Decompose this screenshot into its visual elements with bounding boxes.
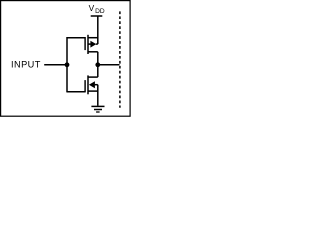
arrow of Q1 (points right) [90, 41, 96, 48]
VDD rail bar [91, 15, 103, 17]
gate wire [67, 91, 85, 93]
source stub [88, 90, 98, 92]
drain stub [88, 51, 98, 53]
transistor Q1 (PMOS) [67, 35, 98, 54]
gate wire [67, 37, 85, 39]
wire output node to dashed boundary [98, 64, 120, 66]
drain wire from output node [97, 65, 99, 77]
gate bar [84, 80, 86, 92]
dashed boundary line [119, 11, 121, 107]
wire input node vertical (PMOS gate to NMOS gate) [66, 37, 68, 92]
wire VDD rail down to PMOS source and body [97, 16, 99, 44]
drain stub [88, 76, 98, 78]
wire PMOS drain down to output node [97, 52, 99, 65]
body stub [95, 84, 98, 86]
channel bar [87, 75, 89, 94]
border frame [1, 1, 131, 117]
arrow of Q2 (points left) [89, 81, 95, 88]
gate bar [84, 37, 86, 50]
source stub [88, 37, 98, 39]
svg-text:INPUT: INPUT [11, 60, 41, 70]
ground [91, 106, 104, 112]
source wire down to ground [97, 85, 99, 106]
svg-text:V: V [89, 3, 95, 13]
wire INPUT to gate node [44, 64, 67, 66]
node OUTPUT junction dot [95, 62, 100, 67]
body stub [88, 43, 91, 45]
transistor Q2 (NMOS) [67, 65, 98, 106]
svg-text:DD: DD [95, 8, 105, 15]
channel bar [87, 35, 89, 54]
node input junction dot [65, 62, 70, 67]
